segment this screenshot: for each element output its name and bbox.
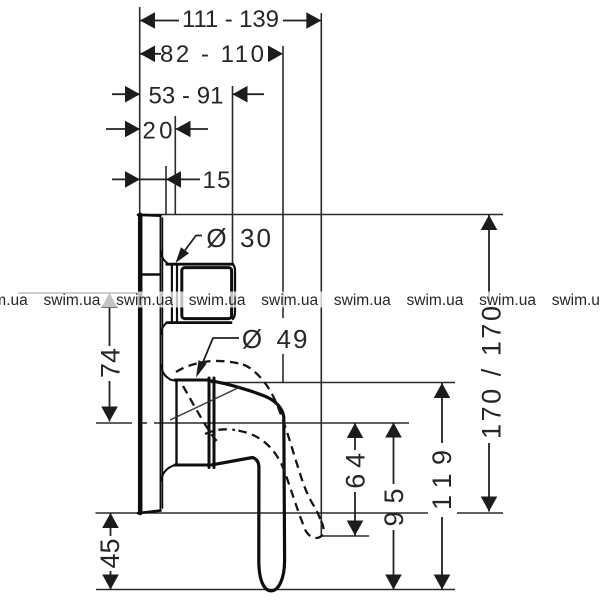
watermark band [0, 292, 600, 308]
dashed handle: cone base arc [205, 429, 235, 434]
arrowhead 20 left [125, 121, 140, 138]
dimension line 45 [110, 513, 112, 536]
svg-text:swim.ua: swim.ua [334, 292, 391, 309]
svg-text:swim.ua: swim.ua [189, 292, 246, 309]
arrowhead 64 top [347, 423, 364, 438]
sleeve D49: top edge [175, 379, 209, 382]
arrowhead 74 bottom [101, 407, 118, 422]
leader line D49 [198, 338, 239, 374]
arrowhead 82-110 left [140, 46, 155, 63]
stop valve D30: outer bottom edge [167, 321, 231, 324]
svg-text:111 - 139: 111 - 139 [182, 6, 279, 33]
svg-text:15: 15 [203, 167, 231, 194]
arrowhead 119 bottom [434, 575, 451, 590]
extension line: 20 dim [174, 116, 176, 215]
arrowhead 170/170 top [481, 215, 498, 230]
stop valve D30: neck ring line 1 [171, 264, 173, 322]
extension line: plate bottom reference (right part) [457, 512, 503, 514]
arrowhead 45 bottom [102, 575, 119, 590]
arrowhead 95 bottom [385, 575, 402, 590]
arrowhead 170/170 bottom [481, 497, 498, 512]
stop valve D30: grip body [182, 268, 232, 319]
plate face line outer [159, 216, 161, 511]
arrowhead leader D49 [196, 360, 207, 377]
dimension line 74 [109, 293, 111, 346]
arrowhead leader D30 [176, 247, 190, 263]
arrowhead 15 right [166, 171, 181, 188]
extension line: top reference for 170/170 [140, 214, 503, 216]
arrowhead 64 bottom [347, 521, 364, 536]
plate top edge [138, 214, 161, 217]
svg-text:swim.ua: swim.ua [44, 292, 101, 309]
extension line: handle top reference for 119 [211, 382, 455, 384]
svg-text:swim.ua: swim.ua [407, 292, 464, 309]
arrowhead 82-110 right [268, 46, 283, 63]
arrowhead 53-91 left [125, 86, 140, 103]
wall escutcheon plate: back edge [138, 215, 143, 513]
stop valve D30: outer top edge [167, 263, 233, 266]
arrowhead 45 top [102, 513, 119, 528]
extension line: wall plane / left reference [139, 7, 141, 215]
svg-text:Ø: Ø [242, 324, 262, 354]
dashed handle (swung position): cone top arc [176, 361, 243, 372]
svg-text:119: 119 [427, 450, 457, 510]
extension line: 82-110 dim (lower segment) [282, 354, 284, 383]
svg-text:swim.ua: swim.ua [0, 292, 28, 309]
dimension line 64 [354, 423, 356, 450]
dimension line 20 [106, 128, 140, 130]
dimension line 15 [112, 178, 166, 180]
svg-text:Ø: Ø [206, 223, 226, 253]
extension line: stop valve axis [18, 292, 140, 294]
arrowhead 53-91 right [233, 86, 248, 103]
svg-text:170 / 170: 170 / 170 [477, 306, 507, 439]
stop valve D30: outer right bulge [233, 265, 235, 320]
sleeve D49: back line [175, 380, 177, 465]
lever handle outline [211, 381, 285, 591]
dashed handle: inner lever edge [235, 430, 303, 524]
svg-text:74: 74 [96, 348, 126, 378]
dimension line 82-110 [140, 53, 161, 55]
dimension line 119 [441, 383, 443, 443]
svg-text:53 - 91: 53 - 91 [149, 82, 224, 109]
plate-to-sleeve curve bottom [161, 465, 176, 481]
dimension line 170/170 [488, 215, 490, 302]
dimension line 53-91 [112, 93, 140, 95]
extension line: 15 dim tick [165, 166, 167, 215]
dimension line 111-139 [140, 20, 179, 22]
plate-to-sleeve curve top [161, 365, 176, 381]
arrowhead 111-139 left [140, 12, 155, 29]
extension line: plate bottom reference (left part) [96, 512, 429, 514]
arrowhead 74 top [101, 293, 118, 308]
dashed handle: cone lower edge crossing sleeve [183, 386, 220, 444]
arrowhead 15 left [125, 171, 140, 188]
plate internal step [143, 273, 161, 276]
svg-text:swim.ua: swim.ua [552, 292, 600, 309]
extension line: dashed-handle tip reference for 64 [321, 535, 369, 537]
plate-to-valve neck curve top [161, 251, 167, 263]
dashed handle: outer lever edge [243, 365, 321, 522]
svg-text:swim.ua: swim.ua [261, 292, 318, 309]
plate-to-valve neck curve bottom [161, 323, 167, 334]
plate face line inner [161, 218, 163, 508]
dashed handle: tip arc [303, 521, 324, 538]
leader line D30 [179, 236, 203, 260]
plate bottom edge [138, 511, 161, 514]
extension line: 111-139 dim [320, 13, 322, 536]
extension line: 53-91 dim [232, 86, 234, 264]
sleeve D49: front rim line 2 [213, 378, 216, 468]
sleeve D49: front rim line 1 [208, 378, 211, 468]
dashed handle axis line [170, 387, 240, 420]
centerline: handle axis (dash-dot) [96, 422, 132, 424]
svg-text:swim.ua: swim.ua [116, 292, 173, 309]
dimension line 95 [393, 423, 395, 485]
extension line: 82-110 dim (upper segment) [282, 46, 284, 318]
arrowhead 111-139 right [306, 12, 321, 29]
arrowhead 119 top [434, 383, 451, 398]
sleeve D49: bottom edge [175, 464, 209, 467]
stop valve D30: neck ring line 2 [176, 264, 178, 322]
svg-text:45: 45 [95, 538, 125, 568]
extension line: handle tip bottom reference [96, 589, 455, 591]
arrowhead 95 top [385, 423, 402, 438]
arrowhead 20 right [176, 121, 191, 138]
